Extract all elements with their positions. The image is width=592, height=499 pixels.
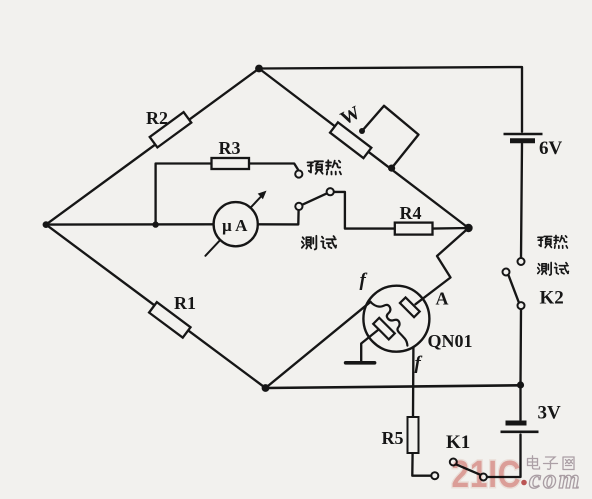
svg-text:3V: 3V xyxy=(538,403,562,424)
svg-text:com: com xyxy=(529,464,582,494)
svg-text:A: A xyxy=(436,289,449,309)
svg-text:R1: R1 xyxy=(174,293,196,313)
svg-text:R5: R5 xyxy=(382,428,404,448)
svg-text:R4: R4 xyxy=(400,203,422,223)
svg-text:6V: 6V xyxy=(539,138,563,159)
svg-text:f: f xyxy=(415,353,423,374)
svg-text:21IC: 21IC xyxy=(451,453,521,495)
svg-text:K2: K2 xyxy=(540,288,564,309)
svg-text:R3: R3 xyxy=(219,138,241,158)
svg-text:µ A: µ A xyxy=(222,216,248,235)
svg-text:QN01: QN01 xyxy=(428,331,473,351)
svg-text:R2: R2 xyxy=(146,108,168,128)
svg-text:K1: K1 xyxy=(446,432,470,453)
svg-text:f: f xyxy=(360,270,368,291)
